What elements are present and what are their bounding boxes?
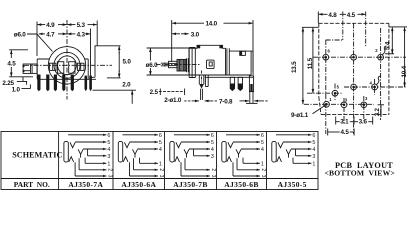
washer [187, 58, 189, 72]
outline right [388, 23, 390, 114]
schematic cell AJ350-6B [222, 133, 266, 178]
centerline col3 [380, 28, 382, 120]
svg-text:3: 3 [312, 154, 315, 160]
schematic cell AJ350-6A [118, 133, 163, 178]
centerline col2 [353, 24, 355, 135]
right flange pair [227, 48, 229, 75]
hole T2 [351, 54, 357, 60]
dim 4.5 bottom [327, 129, 329, 136]
hook at T3 [383, 46, 387, 55]
rear section top [229, 51, 253, 75]
dim 10.4 right [395, 26, 407, 28]
hole B1 [324, 101, 330, 107]
svg-text:2.5: 2.5 [150, 89, 159, 96]
top clip nubs [197, 45, 200, 48]
knurled nut [177, 59, 187, 71]
svg-text:5: 5 [107, 140, 110, 146]
centerline [156, 64, 200, 66]
centerline row2 [344, 86, 407, 88]
svg-text:4.5: 4.5 [347, 12, 356, 19]
pin 4 [62, 75, 65, 92]
hole M3 [372, 84, 378, 90]
inner washer circle [58, 56, 77, 75]
svg-text:4: 4 [312, 147, 315, 153]
svg-text:14.0: 14.0 [206, 21, 218, 28]
dim 14.0 [171, 20, 173, 62]
table column line x=266.5 [266, 132, 268, 190]
pin 3 [54, 75, 57, 92]
svg-text:6: 6 [328, 49, 331, 54]
svg-text:2: 2 [375, 48, 378, 53]
svg-text:4.5: 4.5 [7, 61, 16, 68]
centerline col b3 [363, 96, 365, 121]
threaded bushing shaft tip [161, 63, 169, 67]
dim 3.6 bottom [372, 117, 374, 125]
pin 2 [46, 75, 49, 92]
dim 5.0 right [95, 45, 121, 47]
right outer contact [77, 63, 84, 70]
dim 3.1 bottom [335, 117, 337, 125]
svg-text:3.1: 3.1 [340, 118, 349, 125]
svg-text:1.0: 1.0 [12, 87, 21, 94]
schematic cell AJ350-7A [64, 133, 112, 178]
svg-text:3: 3 [158, 175, 164, 178]
center square [207, 60, 215, 69]
svg-text:3: 3 [211, 154, 214, 160]
centerline row3 [304, 103, 374, 105]
svg-text:4.9: 4.9 [46, 22, 55, 29]
svg-text:<BOTTOM VIEW>: <BOTTOM VIEW> [325, 169, 395, 178]
svg-text:4.7: 4.7 [46, 31, 55, 38]
svg-text:ø6.0: ø6.0 [146, 62, 158, 69]
svg-text:5: 5 [337, 85, 340, 90]
main body [189, 45, 251, 75]
svg-text:5.0: 5.0 [123, 58, 132, 65]
dim 2.0 right [93, 89, 137, 91]
svg-text:3.0: 3.0 [191, 31, 200, 38]
hook at M3 [377, 76, 381, 85]
svg-text:1: 1 [159, 162, 162, 168]
svg-text:6: 6 [312, 133, 315, 139]
dim 4.9 [36, 22, 38, 57]
svg-text:3: 3 [365, 96, 368, 101]
svg-text:AJ350-5: AJ350-5 [278, 180, 307, 189]
outline left [318, 23, 320, 97]
left inner contact [57, 62, 63, 73]
svg-text:3: 3 [107, 154, 110, 160]
svg-text:3.2: 3.2 [374, 107, 381, 116]
svg-text:2: 2 [210, 168, 216, 171]
hole M2 [351, 84, 357, 90]
table column line x=216.5 [216, 132, 218, 190]
right pin A [230, 77, 234, 90]
schematic cell AJ350-7B [170, 133, 216, 178]
table column line x=113 [112, 132, 114, 190]
dim 4.5 left [9, 49, 28, 51]
svg-text:4: 4 [370, 81, 373, 86]
hole M1 [332, 90, 338, 96]
svg-text:10.4: 10.4 [401, 65, 408, 77]
dim 5.4 right [389, 26, 395, 28]
body lower lip [205, 76, 253, 78]
pin 6 [84, 76, 87, 92]
hole B3 [361, 102, 367, 108]
centerline col1 [325, 40, 327, 134]
svg-text:4.3: 4.3 [77, 31, 86, 38]
centerline col mid-left [334, 84, 336, 101]
svg-text:5: 5 [159, 140, 162, 146]
outline bottom [321, 114, 389, 116]
centerline vertical [66, 20, 68, 100]
svg-text:5.4: 5.4 [385, 41, 392, 50]
svg-text:4: 4 [211, 147, 214, 153]
schematic cell AJ350-5 [272, 133, 316, 168]
threaded shaft [169, 61, 178, 67]
svg-text:5: 5 [261, 140, 264, 146]
svg-text:2: 2 [260, 168, 266, 171]
svg-text:AJ350-6A: AJ350-6A [121, 180, 156, 189]
inner ring [54, 52, 80, 78]
table frame [1, 132, 318, 190]
svg-text:AJ350-7B: AJ350-7B [173, 180, 207, 189]
svg-text:5.3: 5.3 [77, 22, 86, 29]
svg-text:ø6.0: ø6.0 [14, 32, 26, 39]
pin 1 [37, 75, 40, 92]
svg-text:6: 6 [211, 133, 214, 139]
svg-text:1: 1 [329, 97, 332, 102]
svg-text:3: 3 [210, 175, 216, 178]
front flange [189, 48, 195, 78]
hole T3 [378, 54, 384, 60]
centerline col b2 [343, 98, 345, 124]
svg-text:1: 1 [312, 162, 315, 168]
svg-text:13.5: 13.5 [291, 61, 298, 73]
centerline col mid-right [374, 79, 376, 95]
dim 4.8 / 4.5 top [317, 12, 319, 24]
svg-text:11.5: 11.5 [307, 57, 314, 69]
svg-text:3.6: 3.6 [359, 118, 368, 125]
svg-text:6: 6 [107, 133, 110, 139]
svg-text:4: 4 [261, 147, 264, 153]
dim dia 6.0 [147, 47, 189, 49]
svg-text:2-ø1.0: 2-ø1.0 [164, 97, 182, 104]
svg-text:AJ350-7A: AJ350-7A [68, 180, 103, 189]
outer bezel circle [48, 47, 85, 84]
svg-text:2.0: 2.0 [122, 81, 131, 88]
svg-text:4: 4 [107, 147, 110, 153]
hole B2 [341, 102, 347, 108]
svg-text:3: 3 [106, 175, 112, 178]
svg-text:1: 1 [107, 162, 110, 168]
svg-text:3: 3 [260, 175, 266, 178]
dim 11.5 left [312, 28, 314, 34]
dim 13.5 left [302, 26, 319, 28]
svg-text:9-ø1.1: 9-ø1.1 [291, 112, 309, 119]
svg-text:4.5: 4.5 [341, 129, 350, 136]
centerline row2-left [307, 92, 342, 94]
dim 7-0.8 [211, 100, 218, 102]
svg-text:6: 6 [159, 133, 162, 139]
hole T1 [323, 54, 329, 60]
bottom pin (2-dia1.0) [199, 75, 204, 84]
body housing [37, 46, 96, 80]
dim 3.2 right [380, 105, 382, 117]
pin 5 [71, 75, 74, 92]
svg-text:2: 2 [158, 168, 164, 171]
svg-text:1: 1 [261, 162, 264, 168]
svg-text:7-0.8: 7-0.8 [219, 98, 233, 105]
table column line x=164.5 [164, 132, 166, 190]
table column line x=58.6 [58, 132, 60, 190]
svg-text:2: 2 [106, 168, 112, 171]
left outer contact [49, 63, 56, 70]
svg-text:4: 4 [159, 147, 162, 153]
rear notch [240, 51, 246, 55]
pin 7 [89, 76, 92, 92]
right pin C long [249, 76, 253, 92]
dim 3.0 [172, 33, 180, 35]
svg-text:3: 3 [345, 98, 348, 103]
centerline horizontal [24, 64, 112, 66]
svg-text:5: 5 [211, 140, 214, 146]
left side tab [23, 64, 37, 73]
outline top [319, 22, 389, 24]
bottom pin ghost pair [205, 75, 208, 87]
svg-text:6: 6 [261, 133, 264, 139]
svg-text:AJ350-6B: AJ350-6B [224, 180, 258, 189]
right inner contact [69, 62, 75, 73]
centerline row1 [313, 56, 406, 58]
svg-text:5: 5 [312, 140, 315, 146]
svg-text:SCHEMATIC: SCHEMATIC [12, 150, 62, 159]
svg-text:PART NO.: PART NO. [14, 180, 50, 189]
right pin B [238, 77, 242, 90]
svg-text:4.8: 4.8 [328, 12, 337, 19]
